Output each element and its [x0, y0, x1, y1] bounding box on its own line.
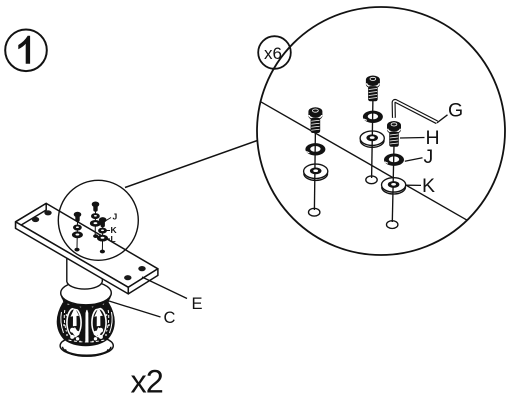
plate hole (right near): [124, 275, 131, 280]
svg-text:J: J: [113, 212, 118, 222]
step number 1: [18, 36, 30, 64]
svg-text:K: K: [422, 175, 435, 197]
leg C : stem cylinder: [67, 256, 103, 289]
plate hole (right far): [138, 266, 145, 271]
svg-text:x2: x2: [131, 364, 163, 400]
step number circle: [5, 30, 47, 72]
magnified hardware stacks: [304, 76, 406, 229]
barrel carving: right white panel: [91, 308, 107, 338]
svg-text:E: E: [192, 295, 203, 313]
plate hole (left far): [44, 210, 51, 215]
leader line from detail circle to magnified circle: [125, 141, 257, 188]
mini stack 2: [94, 211, 96, 235]
plate E : front face: [16, 222, 129, 294]
barrel carving: left plume arrow: [71, 308, 80, 327]
barrel carving: center stripe: [70, 308, 103, 343]
barrel speckles: [63, 306, 110, 343]
magnified detail circle: [257, 7, 505, 255]
allen key G: [394, 101, 437, 122]
x6 quantity circle: [258, 36, 291, 69]
leg C : collar: [61, 281, 112, 309]
barrel carving: right plume arrow: [94, 308, 103, 327]
plate hole (left near): [32, 217, 39, 222]
plate edge inside magnified circle: [261, 102, 468, 221]
svg-text:C: C: [164, 309, 176, 327]
plate E : right end face: [128, 269, 158, 294]
svg-text:J: J: [424, 146, 434, 168]
barrel highlight arcs: [61, 302, 112, 342]
mini stack 3: [101, 226, 103, 250]
small detail circle on plate: [58, 180, 138, 260]
bracket plate E : top face: [16, 203, 158, 294]
leg C : base ring: [60, 336, 113, 357]
mini stack 1: [76, 221, 79, 249]
barrel carving: left white panel: [66, 308, 107, 338]
plate E : left end face: [16, 203, 47, 228]
svg-text:G: G: [448, 99, 463, 121]
svg-text:L: L: [111, 234, 116, 244]
leg C : barrel body (dark carved): [57, 297, 114, 345]
miniature hardware stacks inside detail circle: [72, 202, 107, 253]
